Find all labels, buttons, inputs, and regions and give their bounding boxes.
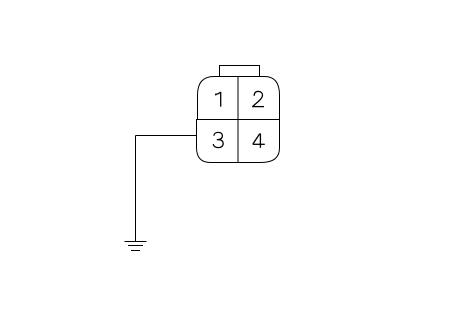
wire horizontal segment from pin 3 bbox=[136, 135, 197, 137]
ground bbox=[125, 242, 147, 251]
connector J1 body bbox=[197, 77, 280, 163]
pin 2 label bbox=[252, 91, 264, 106]
pin 4 label bbox=[253, 133, 265, 147]
pin cavity divider horizontal bbox=[197, 119, 280, 121]
pin 3 label bbox=[213, 132, 223, 147]
pin cavity divider vertical bbox=[237, 77, 239, 163]
wire vertical segment to ground bbox=[135, 136, 137, 242]
pin 1 label bbox=[216, 92, 221, 107]
connector lock tab bbox=[220, 66, 260, 77]
